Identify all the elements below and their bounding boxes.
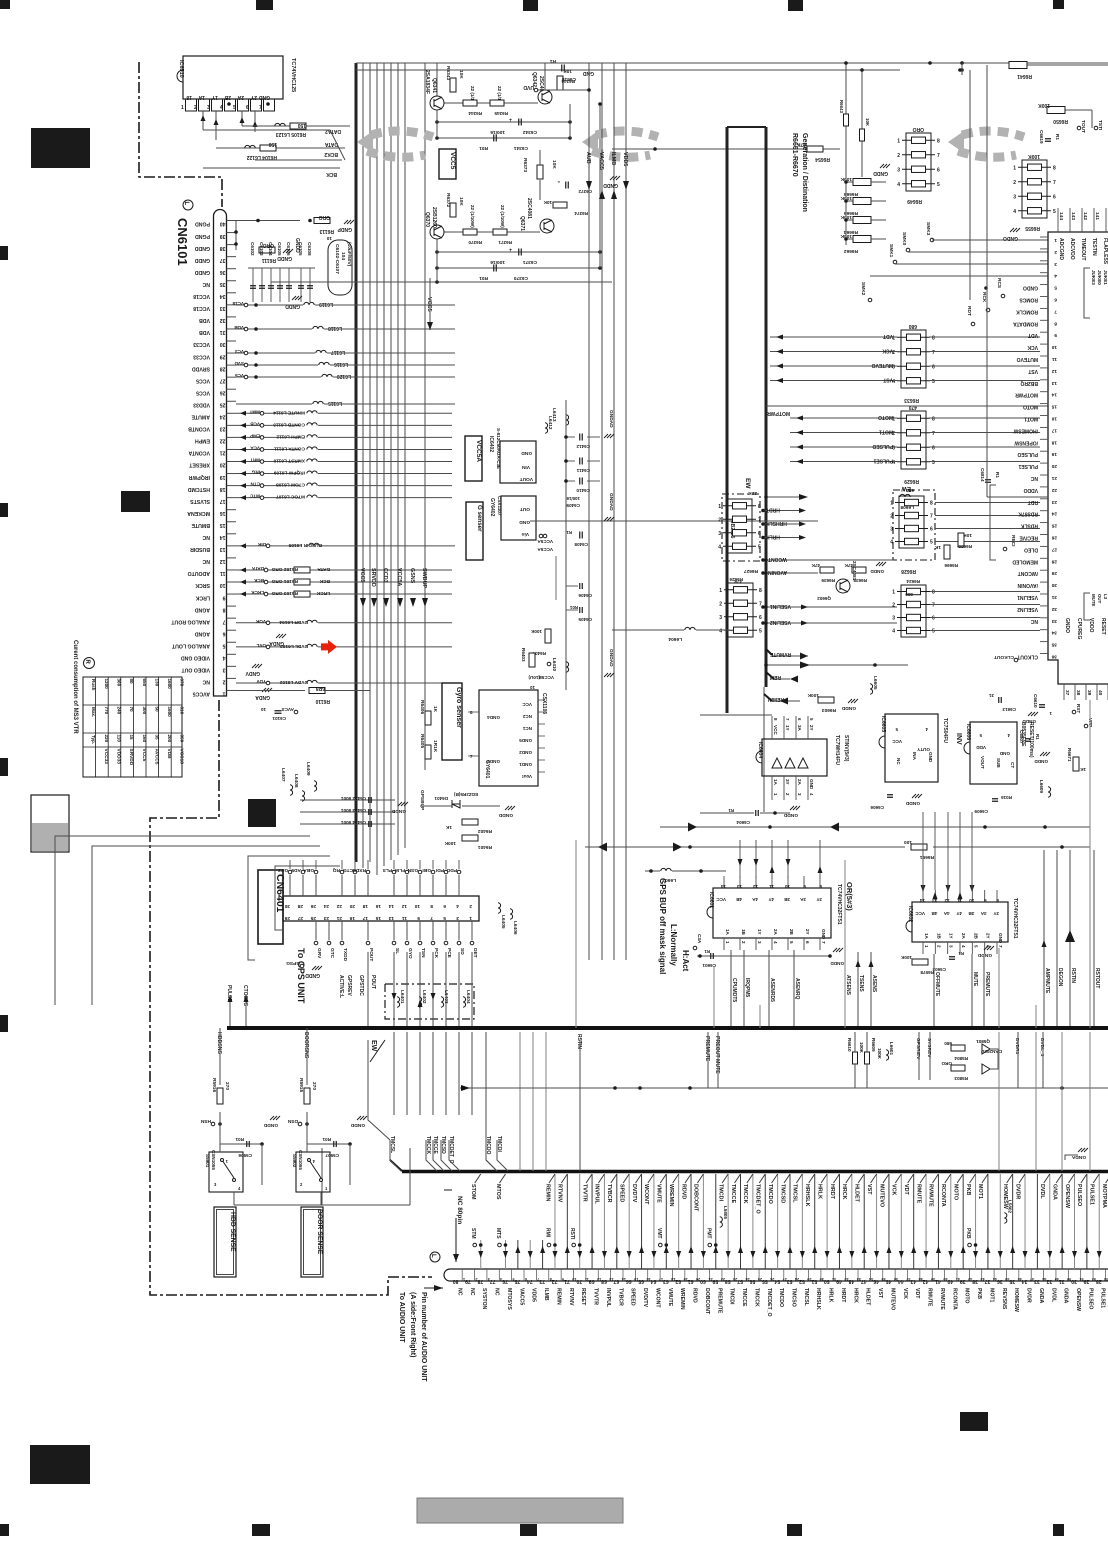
svg-text:HOMESW: HOMESW	[1002, 1184, 1008, 1210]
svg-text:10: 10	[220, 582, 226, 588]
svg-text:SRVDD: SRVDD	[192, 365, 210, 371]
svg-text:3: 3	[718, 531, 721, 537]
resistor array R6624b 680	[901, 585, 926, 637]
labels RST VPP terminals	[1072, 710, 1076, 714]
svg-text:R6373: R6373	[522, 158, 528, 172]
svg-text:GSNS: GSNS	[409, 568, 415, 584]
connector CN6401 body	[283, 896, 479, 921]
svg-text:DVDR L6104: DVDR L6104	[279, 619, 308, 625]
svg-text:L: L	[183, 202, 189, 206]
svg-text:1A: 1A	[924, 933, 929, 940]
resistor R5915 270	[304, 1088, 310, 1104]
CN6401 surrounding routing	[275, 866, 340, 930]
svg-text:10K: 10K	[458, 197, 464, 206]
svg-text:C6102-C6107: C6102-C6107	[334, 244, 340, 274]
svg-text:MOT1: MOT1	[1024, 416, 1038, 422]
svg-text:VCC5: VCC5	[426, 297, 432, 312]
svg-text:ASENRQ: ASENRQ	[794, 978, 800, 1000]
svg-text:ASENS: ASENS	[871, 975, 877, 993]
svg-text:VST: VST	[866, 1184, 872, 1195]
svg-text:1K: 1K	[445, 824, 452, 830]
svg-text:PMT: PMT	[705, 1228, 711, 1239]
svg-text:VCONTA: VCONTA	[188, 450, 210, 456]
svg-text:42: 42	[968, 1277, 972, 1281]
svg-text:12: 12	[597, 1277, 601, 1281]
svg-text:R01: R01	[479, 275, 488, 281]
svg-text:5: 5	[759, 628, 762, 634]
svg-text:VCC5: VCC5	[196, 377, 210, 383]
svg-text:4: 4	[456, 903, 459, 909]
svg-text:31: 31	[989, 693, 994, 698]
svg-text:1: 1	[718, 504, 721, 510]
svg-text:VMUTE: VMUTE	[667, 1288, 673, 1307]
svg-text:3: 3	[488, 1277, 490, 1281]
svg-text:ROMCS: ROMCS	[1019, 297, 1038, 303]
svg-text:R6626: R6626	[729, 577, 743, 582]
svg-text:10K: 10K	[458, 70, 464, 79]
svg-text:R6111: R6111	[262, 257, 276, 263]
svg-text:GBI: GBI	[422, 867, 431, 873]
svg-text:VCC5A: VCC5A	[537, 547, 553, 552]
terminal 36 CLKOUT	[1014, 658, 1018, 662]
ground GNDD hdd	[270, 1116, 280, 1120]
ground GNDA right	[1078, 1148, 1088, 1152]
svg-text:To GPS UNIT: To GPS UNIT	[296, 948, 306, 1004]
svg-text:4: 4	[961, 945, 966, 948]
svg-text:27: 27	[1051, 546, 1057, 552]
svg-text:8: 8	[758, 504, 761, 510]
svg-text:/WCONT: /WCONT	[1018, 570, 1038, 576]
svg-text:6: 6	[443, 903, 446, 909]
svg-text:VCC5: VCC5	[449, 152, 456, 170]
svg-text:VSELIN1: VSELIN1	[770, 603, 791, 609]
svg-text:GNDD: GNDD	[194, 245, 210, 251]
svg-text:10: 10	[260, 707, 266, 712]
resistor array R6627 22K EW box	[722, 494, 760, 561]
resistor array R6633 680	[901, 330, 926, 388]
svg-text:GND3: GND3	[487, 759, 500, 764]
label box VCC5A	[465, 436, 482, 481]
wires IC6510 to bus	[202, 111, 204, 130]
svg-text:Q6602: Q6602	[817, 596, 831, 601]
svg-text:1: 1	[181, 105, 184, 111]
svg-text:R015: R015	[1001, 795, 1012, 800]
svg-text:22: 22	[220, 438, 226, 444]
svg-text:BCK: BCK	[326, 171, 337, 177]
svg-text:70: 70	[129, 707, 134, 713]
svg-text:40: 40	[1097, 690, 1103, 696]
svg-text:33: 33	[220, 305, 226, 311]
svg-text:7: 7	[259, 105, 262, 111]
svg-text:R6610: R6610	[847, 1038, 852, 1052]
svg-text:C6105: C6105	[298, 242, 303, 256]
capacitor C6404 column2	[555, 556, 557, 600]
wires CN6401 to TMC	[368, 1040, 390, 1140]
svg-text:SMK2: SMK2	[860, 282, 866, 296]
signal tag labels above connector	[473, 1243, 477, 1247]
svg-text:MUTEVO: MUTEVO	[878, 1184, 884, 1207]
svg-text:GNDD: GNDD	[603, 182, 618, 188]
svg-text:TSTI: TSTI	[1097, 120, 1103, 131]
svg-text:51: 51	[1079, 1277, 1083, 1281]
svg-text:VCC33: VCC33	[103, 749, 109, 765]
svg-text:C6409: C6409	[566, 503, 580, 508]
svg-text:VOR: VOR	[255, 619, 266, 624]
svg-text:YDV: YDV	[256, 679, 266, 684]
svg-text:REMIN: REMIN	[555, 1288, 561, 1305]
resistor R5916 270	[217, 1088, 223, 1104]
transistor Q6342 2SC40	[538, 90, 552, 104]
junction row y847 with resistor R6691	[585, 846, 905, 848]
svg-text:10K: 10K	[543, 200, 552, 205]
svg-text:VCC33: VCC33	[193, 353, 210, 359]
svg-text:810: 810	[180, 707, 185, 715]
svg-text:3: 3	[892, 616, 895, 622]
svg-text:9: 9	[562, 1277, 564, 1281]
capacitor bank C6102-C6108	[252, 268, 254, 302]
svg-text:C6372: C6372	[578, 189, 592, 194]
svg-text:AMUTE: AMUTE	[191, 414, 210, 420]
svg-text:BCK: BCK	[319, 578, 330, 584]
svg-text:GNDP: GNDP	[337, 226, 352, 232]
svg-text:2: 2	[892, 603, 895, 609]
svg-text:7: 7	[758, 517, 761, 523]
svg-text:C6609: C6609	[974, 809, 988, 814]
svg-text:IC6602: IC6602	[907, 906, 913, 922]
svg-text:TSENS: TSENS	[858, 975, 864, 992]
svg-text:R: R	[84, 660, 90, 665]
black patch bottom left	[30, 1445, 90, 1484]
calibration patch white/gray	[31, 795, 69, 852]
svg-text:MOTO: MOTO	[964, 1288, 970, 1303]
svg-text:Generation / Distination: Generation / Distination	[801, 133, 808, 212]
svg-text:L6406: L6406	[512, 921, 518, 935]
svg-text:L6605: L6605	[872, 676, 878, 690]
svg-text:100K: 100K	[877, 1048, 882, 1060]
terminal HSN	[211, 1122, 215, 1126]
svg-text:110: 110	[117, 735, 122, 743]
svg-text:RVMUTE: RVMUTE	[769, 651, 791, 657]
resistor R6404 100K	[545, 629, 551, 643]
svg-text:TMCDET_O: TMCDET_O	[766, 1288, 772, 1317]
svg-text:+: +	[509, 246, 512, 252]
capacitor C6616 R1	[562, 65, 565, 72]
svg-text:4Y: 4Y	[956, 911, 962, 916]
svg-text:RTVNV: RTVNV	[568, 1288, 574, 1306]
black patch mid left	[121, 491, 150, 512]
svg-text:R6688: R6688	[958, 544, 972, 549]
svg-text:1: 1	[1013, 165, 1016, 171]
svg-text:41: 41	[956, 1277, 960, 1281]
svg-text:4: 4	[1054, 273, 1057, 279]
wire to IC6604 VCC	[700, 714, 772, 716]
svg-text:L6408: L6408	[293, 774, 299, 788]
svg-text:GNDD: GNDD	[873, 170, 888, 176]
svg-text:80: 80	[453, 1278, 459, 1284]
svg-text:VCC: VCC	[915, 911, 925, 916]
svg-text:18: 18	[220, 486, 226, 492]
svg-text:R6345: R6345	[494, 111, 508, 116]
svg-text:470: 470	[908, 404, 917, 410]
svg-text:3A: 3A	[980, 911, 987, 916]
svg-text:R6671: R6671	[1067, 748, 1072, 762]
svg-text:2SB1260: 2SB1260	[431, 207, 437, 228]
svg-text:C5907: C5907	[325, 1153, 339, 1158]
svg-text:7: 7	[932, 350, 935, 356]
registration marks left edge	[0, 246, 8, 260]
svg-text:14: 14	[388, 903, 394, 909]
svg-text:2A: 2A	[797, 779, 802, 786]
svg-text:GNDD: GNDD	[391, 808, 406, 814]
svg-text:26: 26	[1051, 535, 1057, 541]
svg-text:Pin number of AUDIO UNIT: Pin number of AUDIO UNIT	[420, 1292, 427, 1382]
svg-text:5: 5	[223, 642, 226, 648]
svg-text:MOTO: MOTO	[1023, 404, 1038, 410]
svg-text:Max.: Max.	[91, 707, 96, 717]
svg-text:PULSE1: PULSE1	[1089, 1184, 1095, 1205]
svg-text:34: 34	[220, 293, 226, 299]
svg-text:R1: R1	[958, 951, 964, 956]
svg-text:130: 130	[154, 679, 159, 687]
svg-text:3A: 3A	[799, 897, 806, 902]
svg-text:INVPUL: INVPUL	[594, 1184, 600, 1204]
svg-text:C6102: C6102	[250, 242, 255, 256]
svg-text:35: 35	[882, 1277, 886, 1281]
svg-text:GNDO: GNDO	[1064, 618, 1070, 633]
svg-text:360: 360	[117, 679, 122, 687]
svg-text:TMCDET_O: TMCDET_O	[755, 1184, 761, 1214]
svg-text:6: 6	[758, 531, 761, 537]
svg-text:MNUTE L6114: MNUTE L6114	[273, 409, 305, 415]
svg-text:PGND: PGND	[195, 233, 210, 239]
terminal UVD	[534, 88, 538, 92]
svg-text:26: 26	[310, 903, 316, 909]
svg-text:CLKOUT: CLKOUT	[994, 654, 1014, 660]
svg-text:NC: NC	[202, 281, 210, 287]
svg-text:PULSEO: PULSEO	[1076, 1184, 1082, 1206]
ghost arrow gray left	[367, 131, 433, 157]
svg-text:3: 3	[1054, 261, 1057, 267]
wires right labels AMPMUTE DEGON RSTIN RSTOUT	[1043, 850, 1045, 1028]
wires down to 100K bank	[845, 63, 847, 177]
svg-text:49: 49	[1055, 1277, 1059, 1281]
svg-text:10K: 10K	[963, 532, 972, 538]
svg-text:46: 46	[1018, 1277, 1022, 1281]
svg-text:RDS57K: RDS57K	[1018, 511, 1038, 517]
svg-text:VSELIN1: VSELIN1	[1017, 594, 1038, 600]
bead L5805 at pin59	[720, 1217, 723, 1227]
svg-text:VCB: VCB	[250, 421, 260, 426]
svg-text:40: 40	[220, 221, 226, 227]
svg-text:39: 39	[1086, 690, 1092, 696]
svg-text:GND: GND	[259, 94, 271, 100]
svg-text:CPUMDT5: CPUMDT5	[731, 978, 737, 1002]
svg-text:GND: GND	[521, 450, 532, 456]
svg-text:1B: 1B	[741, 929, 746, 936]
svg-text:R6654: R6654	[815, 156, 830, 162]
svg-text:GPSRIEV: GPSRIEV	[915, 1038, 921, 1060]
svg-text:SLVSTS: SLVSTS	[190, 498, 210, 504]
svg-text:5: 5	[1054, 285, 1057, 291]
svg-text:680: 680	[944, 1041, 952, 1046]
svg-text:FLAPLESS: FLAPLESS	[1102, 238, 1108, 265]
svg-text:XRESET: XRESET	[188, 462, 210, 468]
svg-text:L6608: L6608	[900, 504, 914, 510]
svg-text:R6405: R6405	[419, 734, 425, 748]
svg-text:STM: STM	[470, 1228, 476, 1239]
resistor R6343 10K	[450, 78, 456, 92]
svg-text:VSELIN2: VSELIN2	[1017, 606, 1038, 612]
svg-text:GNDAD: GNDAD	[608, 410, 614, 428]
svg-text:GNDD: GNDD	[870, 569, 884, 574]
resistor R6104 150 / bead L6122	[216, 147, 345, 149]
svg-text:AGND: AGND	[194, 630, 210, 636]
bead L5802 at pin36	[1004, 1213, 1007, 1223]
svg-text:PULSEO: PULSEO	[1017, 451, 1038, 457]
resistor array R6628 680 EW box	[893, 490, 935, 560]
svg-text:/HOMESW: /HOMESW	[1013, 427, 1038, 433]
svg-text:TMCCE: TMCCE	[741, 1288, 747, 1307]
svg-text:143: 143	[1070, 212, 1076, 220]
svg-text:To AUDIO UNIT: To AUDIO UNIT	[398, 1292, 405, 1343]
svg-text:C5402 8001: C5402 8001	[341, 796, 366, 801]
svg-text:RCK: RCK	[981, 292, 987, 303]
svg-text:38: 38	[1075, 690, 1081, 696]
svg-text:1Y: 1Y	[757, 929, 762, 935]
svg-text:AD5: AD5	[291, 867, 301, 873]
wires IC6602 outputs down	[933, 954, 935, 1028]
svg-text:MOT1: MOT1	[988, 1288, 994, 1303]
svg-text:L6405: L6405	[500, 915, 506, 929]
svg-text:8: 8	[932, 335, 935, 341]
svg-text:22K: 22K	[748, 490, 757, 496]
svg-text:CONTB L6113: CONTB L6113	[273, 421, 305, 427]
capacitor C6370 R01	[437, 267, 600, 269]
resistor R6113 ORO	[236, 220, 300, 222]
black patch center	[248, 799, 276, 827]
label box G senser	[466, 502, 483, 560]
svg-text:35: 35	[1051, 642, 1057, 648]
svg-text:22: 22	[721, 1277, 725, 1281]
svg-text:HLDET: HLDET	[854, 1184, 860, 1203]
rows DATA/BCK/LRCK resistors R6101-R6103 ORO	[236, 569, 290, 571]
label box Gyro senser	[442, 683, 462, 760]
svg-text:26: 26	[220, 389, 226, 395]
beads L6405 L6406	[498, 903, 501, 913]
svg-text:VCC18: VCC18	[179, 749, 185, 765]
arrow into connector	[424, 1287, 443, 1289]
svg-text:(10U): (10U)	[528, 675, 540, 680]
svg-text:GNDA: GNDA	[1051, 1184, 1057, 1200]
svg-text:R6102 ORO: R6102 ORO	[271, 566, 298, 572]
svg-text:1K: 1K	[432, 706, 438, 713]
wire BCK2	[203, 130, 345, 160]
svg-text:6: 6	[1054, 297, 1057, 303]
svg-text:POUT: POUT	[368, 948, 374, 961]
svg-text:XMRST L6110: XMRST L6110	[273, 458, 305, 464]
svg-text:7: 7	[430, 915, 433, 921]
IC right bottom pins 37-41	[1063, 684, 1065, 700]
svg-text:2SA1834F: 2SA1834F	[424, 70, 430, 94]
svg-text:2SC40: 2SC40	[538, 76, 544, 92]
resistors R6666 R6665 R6664 R6662 100K	[853, 179, 871, 186]
svg-text:GND1: GND1	[519, 762, 532, 767]
resistor R6641	[1009, 62, 1027, 69]
svg-text:L6410: L6410	[552, 658, 557, 671]
svg-text:16: 16	[375, 903, 381, 909]
svg-text:HRDT: HRDT	[766, 507, 780, 513]
svg-text:43: 43	[980, 1277, 984, 1281]
svg-text:35: 35	[154, 735, 159, 741]
svg-text:240: 240	[117, 707, 122, 715]
ground GNDAD labels	[604, 434, 614, 438]
svg-text:RSTIN: RSTIN	[1070, 968, 1076, 983]
svg-text:ILMB: ILMB	[610, 152, 616, 165]
svg-text:1Y: 1Y	[211, 94, 218, 100]
wires CN6101 power rows	[236, 304, 303, 306]
svg-text:Typ.: Typ.	[91, 735, 96, 744]
svg-text:33: 33	[1051, 618, 1057, 624]
svg-text:6: 6	[932, 616, 935, 622]
svg-text:C6613: C6613	[1002, 707, 1016, 712]
svg-text:VCONTB: VCONTB	[188, 426, 210, 432]
svg-text:6: 6	[930, 527, 933, 533]
svg-text:HLDET: HLDET	[865, 1288, 871, 1306]
svg-text:EMPH L6112: EMPH L6112	[276, 433, 305, 439]
svg-text:RCS: RCS	[996, 278, 1002, 289]
svg-text:R5915: R5915	[298, 1078, 304, 1092]
svg-text:GNDD: GNDD	[1022, 719, 1036, 724]
wires mid labels ATSENS TSENS ASENS	[844, 952, 846, 1028]
svg-text:PLS: PLS	[382, 867, 392, 873]
svg-text:VDB: VDB	[166, 749, 172, 760]
svg-text:VCK: VCK	[1027, 344, 1038, 350]
labels MOTO MOT1 PULSE0 PULSE1	[790, 417, 897, 419]
svg-text:UVD: UVD	[523, 84, 534, 90]
bead L6412	[545, 423, 548, 433]
svg-text:24: 24	[323, 903, 329, 909]
svg-text:27: 27	[220, 377, 226, 383]
svg-text:11: 11	[220, 570, 226, 576]
svg-text:L6118: L6118	[328, 325, 342, 331]
svg-text:TMCDO: TMCDO	[767, 1184, 773, 1204]
svg-text:RESET: RESET	[1100, 618, 1106, 635]
svg-text:L6402: L6402	[421, 990, 427, 1004]
svg-text:16: 16	[646, 1277, 650, 1281]
bus thick horizontal main	[227, 1026, 1108, 1030]
svg-text:4: 4	[890, 540, 893, 546]
resistor R6671 1K	[1073, 757, 1079, 771]
svg-text:R6691: R6691	[920, 854, 934, 860]
unit boundary dash-dot left / bottom	[150, 700, 432, 1295]
svg-text:WCONT: WCONT	[654, 1288, 660, 1308]
svg-text:NC: NC	[202, 679, 210, 685]
svg-text:PKB: PKB	[976, 1288, 982, 1299]
svg-text:C6341: C6341	[514, 145, 528, 151]
svg-text:3Y: 3Y	[993, 911, 999, 916]
svg-text:17: 17	[220, 498, 226, 504]
wire row y282	[271, 281, 612, 283]
svg-text:PCK: PCK	[433, 948, 439, 959]
svg-text:38: 38	[919, 1277, 923, 1281]
svg-text:10: 10	[1051, 344, 1057, 350]
svg-text:GNDA: GNDA	[255, 694, 270, 700]
label box C6102-C6107 104	[328, 240, 352, 295]
svg-text:12: 12	[752, 884, 758, 889]
label MUTE OUT L3 bracket	[1084, 593, 1090, 620]
svg-text:MOTPMA: MOTPMA	[1101, 1184, 1107, 1208]
svg-text:PREMUTE: PREMUTE	[716, 1288, 722, 1314]
